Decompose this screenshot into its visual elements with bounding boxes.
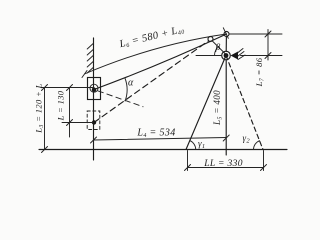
dimension line L3 — [44, 88, 46, 150]
dimension line L4 — [94, 138, 227, 141]
tick L4 left — [91, 137, 97, 143]
leg position 2 dashed (pivot to rear foot) — [226, 56, 263, 150]
pivot support triangle — [231, 52, 239, 60]
tick L6 right — [223, 28, 228, 39]
link rod position 2 dashed (P2 to crank joint P4) — [94, 41, 209, 123]
pin joint P2 dot — [92, 120, 96, 124]
tick L6 left — [82, 71, 87, 78]
crank joint P3 circle — [224, 32, 229, 37]
tick L bottom — [67, 120, 73, 126]
svg-text:LL = 330: LL = 330 — [203, 159, 243, 169]
fixed pivot P5 dot — [224, 53, 229, 58]
tick L3 top — [42, 85, 48, 91]
tick L7 top — [265, 31, 271, 37]
LL extension line right — [263, 151, 265, 171]
angle gamma2 arc — [254, 141, 260, 150]
slider block position 2 (dashed) — [87, 111, 100, 130]
ground base line — [39, 149, 287, 151]
dimension line L — [69, 88, 71, 138]
crank joint P4 circle (position 2) — [208, 37, 213, 42]
horizontal reference line left of pivot — [196, 55, 221, 57]
pivot support hatching — [238, 49, 245, 60]
angle alpha arc — [125, 78, 127, 101]
slider block position 1 — [88, 78, 101, 100]
dimension line L6 (curved scan line) — [85, 34, 227, 74]
link rod position 1 (P1 to crank joint P3) — [94, 34, 227, 90]
svg-text:L4 = 534: L4 = 534 — [136, 128, 175, 140]
tick L4 right — [223, 135, 229, 141]
tick L7 bottom — [265, 53, 271, 59]
dimension line L7 — [267, 30, 269, 61]
extension line top right (from P3) — [229, 33, 282, 35]
crank arm P3 to pivot — [225, 37, 227, 52]
vertical guide rail — [93, 38, 95, 160]
dashed construction line from P1 down-right — [98, 91, 143, 107]
tick L3 bottom — [42, 147, 48, 153]
svg-text:L7 = 86: L7 = 86 — [254, 57, 266, 87]
crank arm P4 to pivot — [212, 41, 225, 54]
tick LL right — [261, 165, 267, 171]
tick L top — [67, 85, 73, 91]
extension line from P1 — [41, 87, 94, 89]
svg-text:β: β — [215, 43, 221, 53]
angle gamma1 arc — [190, 141, 196, 150]
svg-text:L = 130: L = 130 — [56, 90, 66, 121]
pin joint P1 circle — [90, 84, 98, 92]
extension line from P2 — [62, 122, 94, 124]
pin joint P1 dot — [92, 88, 96, 92]
vertical dimension line L5 — [225, 60, 227, 155]
svg-text:α: α — [128, 78, 134, 89]
tick LL left — [185, 165, 191, 171]
LL extension line left — [187, 151, 189, 171]
leg position 1 (pivot to front foot) — [186, 56, 226, 150]
guide wall hatching — [87, 44, 93, 74]
fixed pivot P5 circle — [222, 51, 231, 60]
svg-text:L5 = 400: L5 = 400 — [212, 90, 224, 126]
dimension line LL — [188, 167, 264, 169]
extension line from pivot right — [241, 55, 283, 57]
angle beta arc — [214, 46, 219, 55]
